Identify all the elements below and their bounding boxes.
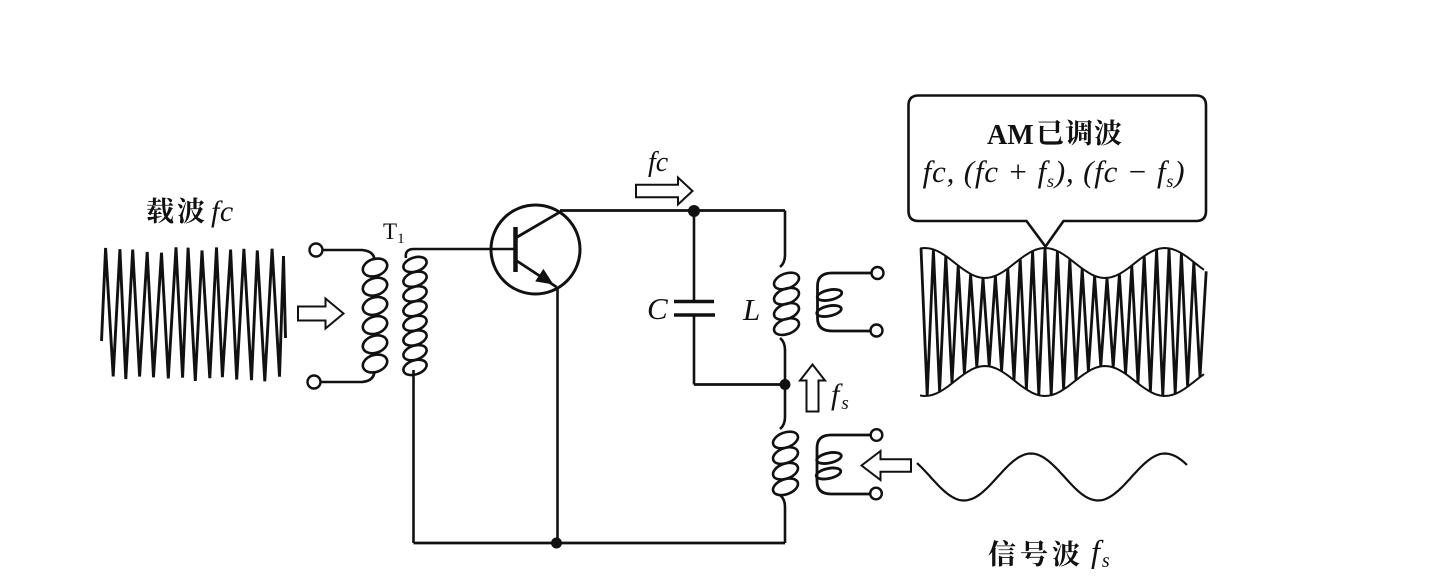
signal sine wave xyxy=(917,454,1187,501)
carrier waveform xyxy=(102,247,286,381)
capacitor C xyxy=(674,211,715,385)
svg-text:L: L xyxy=(742,292,760,327)
transformer T1 secondary winding xyxy=(401,254,428,378)
transistor Q1 (NPN) xyxy=(491,205,580,294)
wire T1 secondary bottom down xyxy=(412,370,415,543)
wire bottom rail xyxy=(414,542,786,545)
terminal bottom-left xyxy=(308,376,321,389)
svg-text:fs: fs xyxy=(831,378,849,414)
svg-text:C: C xyxy=(647,291,668,326)
terminal output bottom xyxy=(871,325,883,337)
wire bottom-left terminal to T1 primary xyxy=(321,371,375,382)
wire T1 secondary to transistor base xyxy=(406,249,514,258)
node B junction dot xyxy=(780,379,791,390)
transformer T1 primary winding xyxy=(360,256,389,376)
wire tank bottom xyxy=(694,383,785,386)
label 载波 fc (carrier wave label) xyxy=(147,195,234,228)
modulation transformer T3 primary winding xyxy=(771,385,801,544)
label 信号波 fs (signal wave label) xyxy=(989,533,1110,572)
AM modulated waveform xyxy=(921,248,1206,396)
terminal top-left xyxy=(310,244,323,257)
modulation transformer T3 secondary winding xyxy=(815,435,876,494)
signal input arrow (left-pointing) xyxy=(862,451,912,480)
callout balloon (AM modulated wave annotation) xyxy=(909,96,1207,247)
inductor L xyxy=(772,211,802,383)
junction dot emitter/bottom rail xyxy=(551,538,562,549)
wire collector to tank (top rail) xyxy=(560,209,785,212)
terminal output top xyxy=(872,267,884,279)
arrow fs (signal into tank) xyxy=(800,365,825,412)
node A junction dot xyxy=(688,205,700,217)
wire top-left terminal to T1 primary xyxy=(323,250,375,260)
svg-text:fc: fc xyxy=(211,195,234,228)
input arrow (carrier into T1) xyxy=(298,299,344,329)
svg-text:AM: AM xyxy=(987,120,1034,151)
wire emitter down xyxy=(556,287,559,543)
svg-text:fs: fs xyxy=(1091,533,1110,572)
svg-text:T1: T1 xyxy=(383,219,405,247)
balloon text line 1: AM 已调波 xyxy=(987,119,1122,151)
output transformer T2 secondary winding xyxy=(816,273,877,331)
terminal signal top xyxy=(871,429,883,441)
arrow fc (transistor output) xyxy=(636,178,693,205)
svg-text:fc: fc xyxy=(648,147,669,178)
svg-text:fc, (fc + fs), (fc − fs): fc, (fc + fs), (fc − fs) xyxy=(923,154,1186,191)
terminal signal bottom xyxy=(870,488,882,500)
